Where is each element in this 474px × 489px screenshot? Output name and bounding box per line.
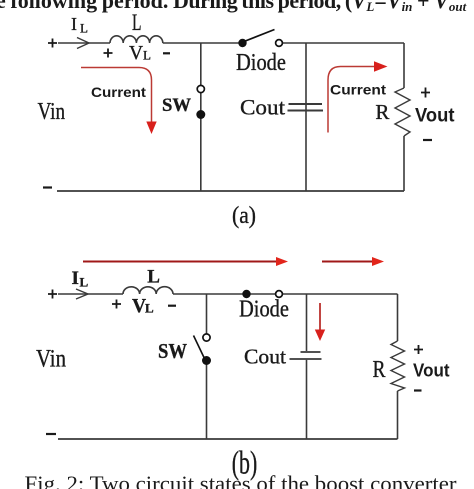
svg-text:e following period. During thi: e following period. During this period, … (0, 0, 467, 14)
svg-text:SW: SW (162, 96, 191, 116)
svg-text:I: I (72, 268, 79, 289)
svg-text:L: L (132, 10, 142, 35)
svg-text:Current: Current (330, 83, 386, 98)
svg-text:L: L (147, 267, 160, 288)
svg-text:Cout: Cout (240, 95, 286, 120)
svg-text:L: L (80, 275, 89, 290)
svg-text:Diode: Diode (239, 297, 289, 323)
svg-text:Current: Current (91, 85, 146, 100)
svg-text:V: V (132, 296, 146, 317)
svg-text:Vout: Vout (413, 360, 450, 381)
svg-text:L: L (80, 21, 88, 36)
svg-text:I: I (71, 14, 77, 34)
svg-text:L: L (143, 48, 151, 63)
svg-text:Fig. 2: Two circuit states of: Fig. 2: Two circuit states of the boost … (25, 471, 458, 489)
svg-text:Vin: Vin (38, 99, 66, 125)
svg-text:Vout: Vout (415, 105, 455, 127)
svg-text:V: V (129, 43, 143, 64)
svg-text:R: R (373, 357, 386, 383)
svg-text:(a): (a) (232, 203, 256, 229)
svg-text:SW: SW (158, 339, 187, 363)
svg-text:Vin: Vin (36, 344, 66, 373)
svg-text:Cout: Cout (244, 345, 286, 369)
svg-text:Diode: Diode (236, 50, 286, 76)
svg-text:L: L (145, 301, 154, 316)
svg-text:R: R (375, 100, 389, 124)
